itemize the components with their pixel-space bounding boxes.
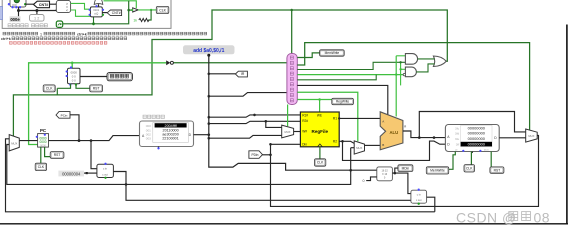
svg-text:RST: RST (93, 87, 100, 91)
wire node to decimal display (36, 11, 38, 15)
tunnel label CNT#1 (34, 1, 50, 8)
mux M3 (ALUSrcB) (354, 141, 364, 154)
counter CNT2 (beat counter) (66, 66, 80, 85)
watermark CSDN (456, 210, 550, 226)
svg-text:CLK: CLK (38, 165, 45, 169)
svg-text:0101: 0101 (93, 8, 99, 12)
wire PC rst (45, 147, 53, 157)
instruction bus (vertical) (207, 54, 376, 172)
bit extender U8 (377, 167, 393, 181)
wire PDin to rail (263, 154, 271, 156)
clock subcircuit frame (2, 0, 171, 28)
constant 00000004 (58, 171, 84, 177)
svg-text:add $a0,$0,/1: add $a0,$0,/1 (193, 48, 224, 54)
svg-text:1: 1 (40, 32, 42, 36)
svg-text:0 0: 0 0 (72, 79, 76, 83)
wire controller opcode tap (208, 93, 287, 98)
annotation text line 2 (1, 37, 127, 41)
svg-text:PC: PC (40, 128, 47, 133)
wire CLK distribution (dark segment) (173, 62, 287, 64)
wire CNT1 out to comparator in1 (25, 3, 56, 5)
wire ALUctr to AND2 in1 (401, 68, 406, 70)
adder U6 (97, 163, 114, 179)
constant 0 input (363, 177, 377, 183)
wire RAM clk to CLK tag (471, 152, 474, 169)
svg-text:MUX: MUX (528, 134, 534, 138)
svg-text:CLK: CLK (46, 87, 53, 91)
wire MemtoReg control (297, 43, 529, 130)
svg-text:CLK: CLK (466, 167, 473, 171)
wire ALUctr vertical to ALU (395, 56, 397, 117)
svg-text:R1: R1 (333, 117, 337, 121)
wire RAM D out to right mux (499, 137, 526, 139)
wire store data (R2 to RAM Din) (343, 141, 446, 160)
svg-text:1 2: 1 2 (34, 17, 39, 21)
annotation text line 3 (red) (10, 42, 107, 45)
alu U7 (380, 112, 406, 150)
svg-text:MUX: MUX (285, 130, 291, 134)
svg-text:08: 08 (534, 210, 551, 226)
wire rt to W mux (266, 121, 282, 127)
wire extender out (392, 172, 411, 194)
svg-text:CLK: CLK (159, 8, 166, 12)
svg-text:W#: W# (302, 129, 307, 133)
tunnel label PCin (56, 112, 70, 119)
svg-text:MDin: MDin (402, 166, 410, 170)
wire to MDin tag (395, 168, 398, 173)
input pin CLK3 (PC) (35, 163, 46, 170)
wire ALUctr to AND1 in1 (396, 55, 405, 57)
input pin CLK2 (43, 85, 55, 92)
wire U9 out to nextPC rail (427, 197, 435, 212)
wire constant to adder (84, 172, 97, 174)
wire loop to buffer input (63, 1, 133, 24)
wire ALUSrcB control (bright) (297, 92, 358, 141)
wire or out to FF top (98, 4, 100, 7)
screenshot bottom border (0, 223, 568, 225)
svg-text:00000004: 00000004 (62, 171, 81, 176)
svg-text:c in: c in (103, 166, 108, 170)
wire mux M1 out to PC (19, 140, 37, 142)
wire R1 to ALU A (338, 117, 380, 119)
svg-text:ALU: ALU (389, 130, 398, 135)
wire RegDst control to W mux (287, 105, 289, 127)
wire buffer out down to resistor (148, 10, 151, 20)
wire PCSrc net (OR gate to PC mux select) (13, 9, 447, 136)
wire ALU result to right mux (419, 112, 525, 138)
write-back box U9 (411, 189, 427, 205)
left toolbar sliver (0, 7, 2, 20)
svg-text:R: R (404, 125, 406, 129)
input pin RST4 (RAM) (490, 167, 504, 173)
input pin RST2 (90, 85, 103, 92)
hex display 000e (10, 16, 21, 22)
and gate A1 (405, 54, 417, 65)
mux M2 (write register select) (282, 125, 294, 138)
svg-text:22100001: 22100001 (162, 137, 178, 141)
svg-text:ctQ: ctQ (94, 12, 98, 16)
svg-text:MUX: MUX (356, 146, 362, 150)
svg-text:0: 0 (363, 179, 365, 183)
comparator U2 (55, 0, 70, 12)
register PC (36, 128, 49, 147)
wire imm vertical (7, 145, 351, 185)
output pin RegWrite (332, 98, 354, 104)
svg-text:PDin: PDin (252, 153, 259, 157)
svg-text:WE: WE (317, 114, 322, 118)
svg-text:ld clr: ld clr (484, 148, 489, 151)
wire FF out to tunnel CNT#2 (102, 12, 107, 14)
wire M3 out to ALU B (365, 144, 381, 146)
wire top green to buffer control (104, 1, 137, 8)
wire clock line to counter CNT2 (71, 63, 73, 69)
input pin CLK4 (RegFile) (315, 159, 326, 166)
wire imm to ALUSrcB mux (351, 147, 355, 149)
svg-text:0000: 0000 (40, 143, 46, 147)
resistor R1 1k (133, 18, 149, 22)
svg-text:00000000: 00000000 (468, 136, 486, 141)
wire AND1 out to OR (418, 58, 435, 60)
svg-text:CNT#: CNT# (112, 11, 121, 15)
svg-text:3ff: 3ff (456, 142, 460, 146)
wire rd field tap (208, 135, 282, 139)
or gate O1 (433, 56, 446, 67)
svg-text:MemWrite: MemWrite (430, 169, 445, 173)
wire branch gate input 2 (297, 62, 405, 69)
svg-text:ctrl+k: ctrl+k (77, 32, 87, 36)
svg-text:B: B (382, 143, 384, 147)
svg-text:c out: c out (416, 199, 422, 202)
wire nextPC rail (6, 139, 435, 212)
svg-text:003: 003 (146, 137, 151, 141)
svg-text:RegWrite: RegWrite (336, 100, 349, 104)
output pin MemWrite (top) (320, 50, 345, 56)
instruction memory (with CJK title) (140, 115, 194, 149)
wire imem D out to bus (194, 133, 211, 136)
and gate A2 (inverted input) (403, 67, 416, 77)
tunnel label PDin (249, 151, 263, 159)
svg-text:R2#: R2# (302, 119, 308, 123)
wire CNT1 bottom to node (17, 7, 56, 12)
wire comparator lt out (71, 10, 91, 16)
svg-text:c in: c in (417, 193, 422, 196)
wire rs field tap (208, 114, 301, 119)
wire RegFile clk (319, 147, 321, 159)
wire M2 out to W# (294, 131, 301, 133)
wire ALUctr net (bright) (297, 74, 403, 76)
tunnel label CNT#2 (107, 10, 121, 16)
svg-text:PCin: PCin (61, 113, 68, 117)
annotation text line 1 (3, 32, 207, 36)
decimal display 12 (30, 15, 45, 22)
svg-text:MUX: MUX (11, 142, 17, 146)
wire MemWrite control (297, 53, 319, 58)
wire PC out (49, 136, 140, 142)
input pin CLK5 (RAM) (464, 165, 475, 172)
svg-text:IR: IR (241, 72, 245, 76)
clock box note text (grey) (8, 24, 47, 27)
input pin MemWrite2 (426, 167, 448, 174)
svg-text:CLK: CLK (317, 161, 324, 165)
buffer element on clock line (166, 60, 173, 65)
svg-text:str: str (455, 148, 458, 151)
svg-text:R1#: R1# (302, 114, 308, 118)
svg-text:000e: 000e (10, 17, 20, 22)
controlled buffer U5 (131, 8, 138, 12)
svg-text:R2: R2 (333, 140, 337, 144)
svg-text:3fc: 3fc (455, 126, 460, 130)
wire PCin to PC data line (70, 115, 80, 142)
svg-text:RST: RST (54, 153, 61, 157)
output pin total-beats (CJK) (107, 73, 132, 81)
wire R2 out (339, 140, 354, 143)
mux M1 (PC source) (9, 135, 19, 151)
svg-text:CSDN @: CSDN @ (456, 210, 517, 226)
wire IR tap (208, 73, 236, 76)
wire ALUop black to ALU top (297, 85, 388, 115)
svg-text:RegFile: RegFile (312, 129, 329, 134)
wire gate bubble feed (297, 75, 376, 80)
svg-text:2004ffff: 2004ffff (165, 124, 178, 128)
controller (single-cycle control unit) (287, 54, 297, 105)
svg-text:ctrl+k: ctrl+k (1, 37, 11, 41)
wire RAM WE to MemWrite tag (449, 152, 456, 170)
wire CNT2 clk input (57, 84, 70, 89)
instruction label addi (183, 45, 235, 54)
wire CLK distribution (bright) (29, 62, 167, 145)
wire adder out (PC+4) (113, 172, 411, 201)
screenshot right border (566, 25, 568, 224)
svg-text:00000000: 00000000 (468, 141, 486, 146)
wire PC out to adder (91, 141, 97, 169)
tunnel label MDin (398, 165, 413, 172)
svg-text:3fe: 3fe (455, 137, 460, 141)
wire PC clk down (40, 147, 42, 163)
flip-flop U4 (89, 5, 105, 17)
wire CNT2 out to beat tag (80, 76, 107, 78)
svg-text:<: < (66, 9, 68, 13)
svg-text:Din: Din (302, 143, 307, 147)
mux M4 (MemtoReg) (526, 129, 538, 142)
svg-text:MemWrite: MemWrite (325, 51, 340, 55)
clock loop probe (56, 21, 62, 27)
register file (300, 112, 339, 147)
wire buffer out to CLK pin (138, 9, 156, 11)
wire controller top input (291, 10, 293, 54)
svg-text:1k: 1k (133, 19, 137, 23)
wire FF bottom to loop line (92, 17, 95, 25)
svg-text:000: 000 (146, 124, 151, 128)
svg-text:RST: RST (494, 168, 501, 172)
wire RegWrite control (bright) (297, 98, 332, 101)
wire M4 out writeback rail (269, 135, 538, 206)
wire AND2 out to OR (416, 64, 434, 72)
wire comparator gt out (71, 3, 91, 9)
output pin CLK (clock box) (156, 6, 169, 13)
wire CNT2 rst (76, 85, 90, 89)
svg-text:CNT#: CNT# (39, 3, 48, 7)
data memory RAM (445, 125, 499, 154)
wire CLK2 tag to PCSrc line (56, 88, 58, 95)
tunnel label IR (235, 71, 247, 77)
wire gate aux vertical (399, 61, 401, 85)
input pin RST3 (PC) (50, 152, 64, 159)
svg-text:c out: c out (102, 173, 108, 177)
wire node to hex display (18, 11, 20, 17)
wire ALU result (403, 131, 446, 139)
svg-text:3fd: 3fd (455, 132, 460, 136)
counter CNT1 (green LED counter) (8, 0, 27, 8)
or gate U3 (top, cut off) (94, 0, 103, 4)
wire rt field tap (208, 120, 301, 125)
wire RegWrite to RegFile WE (319, 100, 321, 113)
wire RAM rst to RST tag (490, 152, 492, 167)
svg-text:A: A (382, 120, 384, 124)
